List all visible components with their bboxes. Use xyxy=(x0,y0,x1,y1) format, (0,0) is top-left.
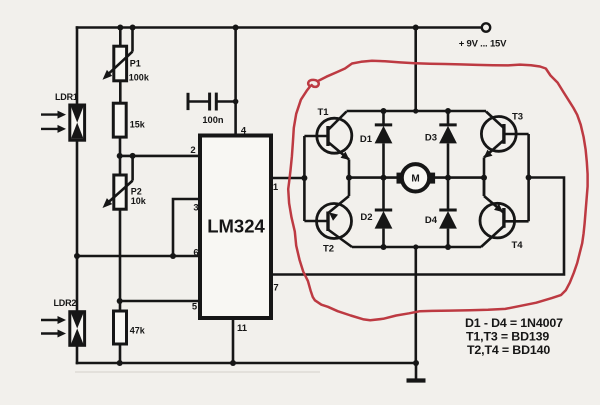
svg-text:100n: 100n xyxy=(202,115,224,125)
node dot P1 top xyxy=(117,25,123,31)
svg-text:P2: P2 xyxy=(131,186,142,196)
node dot top center xyxy=(413,108,418,113)
potentiometer P2 xyxy=(103,156,147,209)
node dot LDR junction pin6 xyxy=(74,253,80,259)
node dot 47k bottom xyxy=(117,360,123,366)
wire P2 bottom to 47k (crosses pin6 wire) xyxy=(119,209,122,311)
wire T3/T4 base vertical xyxy=(527,134,530,221)
node dot A xyxy=(117,153,123,159)
node dot P1 wiper top xyxy=(130,25,136,31)
svg-text:T1,T3 = BD139: T1,T3 = BD139 xyxy=(466,330,549,344)
capacitor C1 100n xyxy=(188,93,236,125)
wire bridge top feed xyxy=(414,28,417,112)
svg-text:6: 6 xyxy=(193,248,198,259)
ground xyxy=(407,363,426,381)
diode D2 xyxy=(360,178,392,247)
wire pin1 to bases xyxy=(271,177,304,180)
svg-text:T2,T4 = BD140: T2,T4 = BD140 xyxy=(467,343,550,357)
node dot pin4 rail xyxy=(233,25,239,31)
potentiometer P1 xyxy=(103,28,150,83)
resistor 47k xyxy=(114,311,146,363)
wire pin3 bracket xyxy=(173,199,200,256)
svg-text:T4: T4 xyxy=(511,240,523,251)
wire motor rail right xyxy=(431,176,484,179)
wire top supply rail xyxy=(77,26,482,29)
svg-text:LM324: LM324 xyxy=(207,216,265,237)
node dot cap/pin4 xyxy=(233,99,239,105)
svg-text:7: 7 xyxy=(273,283,278,294)
svg-text:T2: T2 xyxy=(323,244,334,255)
svg-text:100k: 100k xyxy=(129,72,150,82)
svg-text:D1: D1 xyxy=(360,134,373,145)
node dot pin3 bracket xyxy=(170,253,176,259)
wire T1/T2 base vertical xyxy=(303,136,306,221)
wire pin7 long route xyxy=(271,178,564,275)
node dot D1 top xyxy=(381,108,387,114)
svg-text:T3: T3 xyxy=(512,112,523,123)
wire LDR1 to node at pin6 wire xyxy=(76,140,79,257)
wire bottom ground rail xyxy=(77,362,416,365)
node dot bottom center xyxy=(413,244,418,249)
node dot D4 bottom xyxy=(445,244,451,250)
wire pin4 vertical xyxy=(234,28,237,136)
svg-text:10k: 10k xyxy=(131,196,147,206)
wire left vertical (rail to LDR1) xyxy=(76,28,79,107)
svg-text:+ 9V ... 15V: + 9V ... 15V xyxy=(459,39,507,50)
node dot D2 bottom xyxy=(381,244,387,250)
node dot bridge rail xyxy=(413,25,419,31)
svg-text:M: M xyxy=(411,174,419,185)
op-amp U1 LM324 xyxy=(200,136,271,319)
svg-text:1: 1 xyxy=(273,182,279,193)
svg-text:4: 4 xyxy=(241,126,247,137)
wire motor rail left xyxy=(349,176,400,179)
transistor T2 xyxy=(304,196,352,255)
transistor T4 xyxy=(480,178,529,251)
faint scan artifact line xyxy=(75,371,320,373)
svg-text:LDR1: LDR1 xyxy=(55,92,78,102)
wire bridge top bar xyxy=(347,110,487,113)
svg-text:47k: 47k xyxy=(130,325,146,335)
node dot P2 wiper xyxy=(130,153,136,159)
svg-text:3: 3 xyxy=(193,203,198,214)
node dot pin7 base join xyxy=(526,175,532,181)
svg-text:T1: T1 xyxy=(317,107,329,118)
diode D1 xyxy=(360,111,392,178)
svg-text:D2: D2 xyxy=(360,212,372,223)
node dot pin1 base join xyxy=(301,175,307,181)
svg-text:5: 5 xyxy=(192,302,198,313)
svg-text:P1: P1 xyxy=(130,59,141,69)
LDR2 xyxy=(41,298,85,345)
wire bridge bottom bar xyxy=(352,246,481,249)
wire bridge bottom to ground rail xyxy=(414,247,417,363)
node dot T1/T2 emitters xyxy=(346,175,352,181)
node dot pin5 branch xyxy=(117,298,123,304)
LDR1 xyxy=(41,92,85,140)
svg-text:D3: D3 xyxy=(425,133,437,144)
motor M xyxy=(397,164,436,191)
node dot pin11 bottom xyxy=(230,360,236,366)
svg-text:11: 11 xyxy=(237,323,248,334)
supply terminal circle xyxy=(482,23,490,31)
node dot D1/D2 mid xyxy=(381,175,387,181)
svg-text:LDR2: LDR2 xyxy=(54,298,77,308)
node dot T3/T4 emitters xyxy=(481,175,487,181)
transistor T3 xyxy=(481,112,528,197)
svg-text:2: 2 xyxy=(190,145,195,156)
wire pin5 xyxy=(120,300,200,303)
resistor 15k xyxy=(113,81,146,156)
transistor T1 xyxy=(304,107,351,196)
node dot D3/D4 mid xyxy=(445,175,451,181)
svg-text:D1 - D4 = 1N4007: D1 - D4 = 1N4007 xyxy=(465,316,563,330)
node dot ground junction xyxy=(413,360,419,366)
red hand-drawn loop xyxy=(288,61,587,321)
wire LDR2 to bottom rail xyxy=(76,345,79,364)
wire pin2 (node A to LM324) xyxy=(120,155,200,158)
annotation parts list xyxy=(465,316,563,357)
node dot D3 top xyxy=(445,108,451,114)
diode D3 xyxy=(425,111,457,178)
wire pin11 vertical xyxy=(232,318,235,363)
wire pin6 xyxy=(77,255,200,258)
diode D4 xyxy=(425,178,457,247)
svg-text:D4: D4 xyxy=(425,215,438,226)
svg-text:15k: 15k xyxy=(130,119,146,129)
wire node to LDR2 xyxy=(76,256,79,313)
